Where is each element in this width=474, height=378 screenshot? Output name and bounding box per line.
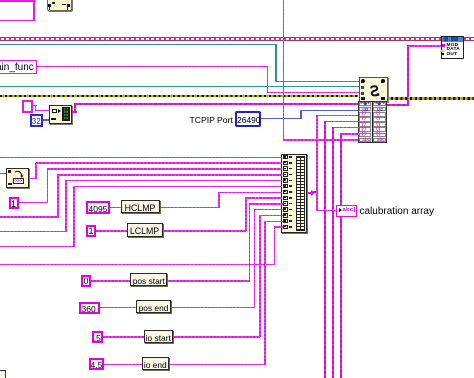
- wire: blue refnum from left edge into queue icon: [0, 173, 6, 175]
- subVI terminal cells: [359, 102, 372, 107]
- constant: 26490: [235, 111, 261, 127]
- label: HCLMP: [121, 200, 160, 214]
- wire: io end (4.5) to build-array row 12: [264, 221, 283, 223]
- subVI node icon: [359, 77, 388, 103]
- node: MOD DATA OUT shared variable: [408, 45, 442, 47]
- constant: 1 (LCLMP): [86, 225, 96, 237]
- constant: 360 (pos end): [79, 302, 100, 315]
- node: queue/regread icon (left): [6, 168, 29, 189]
- label: io end: [142, 357, 170, 370]
- label: LCLMP: [127, 223, 163, 237]
- node: initialize array: [49, 105, 72, 124]
- wire: string array from bottom edge to subVI row 4: [325, 121, 359, 123]
- build array input cells: [283, 155, 288, 160]
- wire: left edge to build-array row 6: [73, 186, 282, 188]
- wire: left edge to build-array row 5: [65, 180, 282, 182]
- build array node: [281, 154, 307, 233]
- wire: teal path #2: [0, 86, 359, 88]
- wire: 32 to init array: [43, 119, 53, 121]
- wire: io start (.5) to build-array row 11: [259, 215, 283, 217]
- subVI terminal stack: [358, 101, 388, 143]
- build array output wire to junction and calubration array: [307, 192, 313, 195]
- wire: string array from bottom edge to subVI row 6: [341, 133, 359, 135]
- wire: string from left edge to build-array row 1: [0, 157, 282, 159]
- wire: array of strings out of init array: [72, 111, 77, 113]
- node: byte-swap icon (top, clipped): [47, 0, 72, 11]
- constant: 32 (I32): [30, 114, 44, 127]
- wire: empty string to init array: [33, 105, 37, 107]
- wire: pos start (0) to build-array row 9: [249, 203, 283, 205]
- wire: LCLMP (1) to build-array row 8: [245, 197, 282, 199]
- wire: HCLMP (4095) to build-array row 7: [218, 192, 282, 194]
- wire: build-array output up to subVI row 3: [316, 115, 358, 117]
- wire: teal path #1: [0, 44, 276, 46]
- constant: 0 (pos start): [81, 275, 91, 288]
- wire: error cluster (right): [386, 97, 474, 100]
- wire: string from top (x283) to subVI abc: [283, 0, 285, 141]
- subVI center glyph: [369, 85, 381, 97]
- label: pos end: [136, 300, 171, 313]
- wire: array-of-clusters chain (full width): [0, 37, 474, 41]
- wire: queue-icon output to build-array row 2: [36, 162, 282, 164]
- terminal: main_func string (clipped): [30, 66, 268, 68]
- label: TCPIP Port: [190, 115, 233, 125]
- wire: string array from bottom edge to subVI row 5: [333, 127, 359, 129]
- node corner bottom-left: [0, 370, 6, 378]
- label: pos start: [130, 273, 167, 286]
- wire: pos end (360) to build-array row 10: [254, 209, 283, 211]
- cluster constant (top-left, clipped): [0, 0, 35, 21]
- wire: left edge to build-array row 4: [57, 174, 282, 176]
- label: io start: [144, 330, 174, 343]
- wire: TCP port blue: [261, 118, 302, 120]
- wire: constant 1 to build-array row 3: [47, 168, 282, 170]
- constant: empty string: [22, 100, 33, 113]
- wire: left edge to build-array row 13: [274, 226, 283, 228]
- terminal: calubration array: [336, 205, 357, 217]
- constant: 4095: [86, 201, 110, 214]
- constant: .5 (io start): [92, 331, 103, 344]
- constant: 1 (string) upper: [9, 197, 19, 209]
- wire: error cluster (left): [0, 95, 358, 98]
- constant: 4.5 (io end): [89, 358, 105, 370]
